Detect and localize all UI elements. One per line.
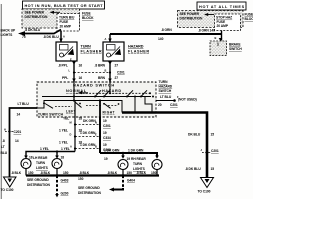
svg-text:SWITCH: SWITCH: [229, 47, 242, 51]
svg-text:C201: C201: [14, 130, 22, 134]
terminal arrow into turn flasher: [59, 39, 63, 42]
svg-text:1 DK GRN: 1 DK GRN: [128, 149, 144, 153]
fuse block (right) dashed box: [178, 11, 244, 28]
svg-text:B: B: [105, 69, 107, 73]
svg-text:YEL: YEL: [63, 117, 69, 121]
arrow to fuse (right): [204, 13, 214, 16]
header box HOT IN RUN: [23, 1, 105, 9]
svg-text:RIGHT: RIGHT: [103, 111, 115, 115]
svg-text:B: B: [95, 145, 97, 149]
label DK BLU 15: [188, 133, 214, 137]
svg-text:LH REAR: LH REAR: [33, 156, 48, 160]
svg-text:HOT IN RUN, BULB TEST OR START: HOT IN RUN, BULB TEST OR START: [25, 4, 104, 8]
off-page triangle TO C100 (left): [4, 177, 17, 187]
svg-text:150: 150: [28, 171, 34, 175]
svg-text:TURN: TURN: [133, 162, 143, 166]
svg-text:TURN B/U: TURN B/U: [59, 15, 75, 19]
label TURN HAZARD SWITCH (right of box): [159, 80, 173, 93]
turn contact blade mid: [75, 102, 82, 108]
label 1 DK GRN 19 (3): [80, 143, 107, 147]
svg-text:27: 27: [115, 76, 119, 80]
svg-text:A: A: [105, 37, 107, 41]
svg-text:FLASHER: FLASHER: [128, 50, 149, 54]
switch internal vertical ppl: [73, 82, 75, 101]
svg-text:150: 150: [63, 171, 69, 175]
svg-text:.8 DK BLU: .8 DK BLU: [25, 28, 41, 32]
svg-text:BLOCK: BLOCK: [82, 16, 94, 20]
svg-text:1 DK GRN: 1 DK GRN: [80, 143, 96, 147]
svg-text:15: 15: [211, 167, 215, 171]
svg-text:E: E: [70, 58, 72, 62]
svg-text:18: 18: [79, 117, 83, 121]
rh lamp ground stubs: [122, 170, 157, 177]
svg-text:BLOCK: BLOCK: [245, 17, 254, 21]
scan edge line: [0, 4, 2, 199]
svg-text:N: N: [95, 121, 97, 125]
svg-text:19: 19: [103, 131, 107, 135]
svg-text:G200: G200: [61, 192, 69, 196]
svg-text:.8 BLK: .8 BLK: [79, 171, 90, 175]
svg-text:TO C100: TO C100: [198, 190, 211, 194]
svg-text:BRN: BRN: [98, 76, 106, 80]
turn movable dashed left: [55, 106, 72, 108]
hazard switch row bus: [42, 96, 151, 98]
turn movable dashed mid: [86, 104, 101, 106]
hazard movable contact dashed: [76, 92, 150, 94]
label PPL 16: [62, 76, 82, 80]
svg-text:LT BLU: LT BLU: [18, 102, 30, 106]
svg-text:16: 16: [79, 76, 83, 80]
label .8 BRN 27: [95, 64, 119, 68]
svg-text:A: A: [63, 35, 65, 39]
internal jog to thick wire: [145, 97, 152, 113]
svg-text:FUSE: FUSE: [245, 13, 254, 17]
svg-text:.8 BLK: .8 BLK: [11, 171, 22, 175]
svg-text:BACK UP: BACK UP: [1, 29, 17, 33]
label HAZARD FLASHER: [128, 45, 149, 54]
fuse block (left) dashed box: [22, 9, 80, 28]
svg-text:SEE POWER: SEE POWER: [25, 11, 45, 15]
brake switch dashed box: [210, 41, 227, 56]
label 1 YEL 18 (2): [59, 129, 82, 133]
turn switch lamp feeds: [75, 101, 100, 118]
connector C201 tick right wire: [202, 151, 211, 154]
terminal arrow into brake switch: [219, 38, 223, 41]
svg-text:19: 19: [104, 157, 108, 161]
svg-text:TURN: TURN: [81, 45, 92, 49]
header box HOT AT ALL TIMES: [197, 2, 246, 10]
svg-text:DISTRIBUTION: DISTRIBUTION: [25, 15, 49, 19]
wire yel from switch: [74, 117, 76, 152]
label .8 BLK 150 (1): [11, 171, 34, 175]
svg-text:BRAKE: BRAKE: [229, 43, 241, 47]
svg-text:16: 16: [79, 64, 83, 68]
svg-text:HOT AT ALL TIMES: HOT AT ALL TIMES: [199, 5, 245, 9]
wire to back up lights: [18, 30, 61, 36]
svg-text:18: 18: [61, 156, 65, 160]
svg-text:C334: C334: [103, 136, 111, 140]
svg-text:HAZARD: HAZARD: [128, 45, 144, 49]
ground drop dashed G404: [109, 176, 123, 192]
svg-text:140: 140: [158, 37, 164, 41]
terminal arrows rh lamps: [121, 156, 159, 159]
label .8 BLK 150 (4): [136, 171, 157, 175]
label back up lights: [1, 29, 17, 38]
contact dot right end: [118, 103, 120, 105]
wire brn hazard flasher to switch: [108, 61, 112, 82]
svg-text:150: 150: [78, 177, 84, 181]
internal vertical to brake feed: [134, 96, 136, 113]
svg-text:DISTRIBUTION: DISTRIBUTION: [27, 183, 51, 187]
svg-text:H: H: [4, 128, 6, 132]
svg-text:FUSE: FUSE: [82, 12, 91, 16]
svg-text:.8 ORN 140: .8 ORN 140: [198, 28, 215, 32]
hazard contact blade 2: [103, 91, 110, 98]
label RH REAR TURN LIGHTS: [131, 157, 146, 171]
arrow to fuse (left): [50, 11, 61, 14]
normal position arrow: [78, 91, 88, 94]
hazard flasher U2: [103, 42, 124, 61]
wire orn from fuse: [110, 31, 222, 43]
lamp RH rear turn light: [152, 160, 162, 170]
svg-text:150: 150: [127, 171, 133, 175]
label .8 BLK 150 (2): [40, 171, 69, 175]
svg-text:G404: G404: [127, 179, 135, 183]
connector C334 dashed: [74, 135, 101, 137]
svg-text:B: B: [215, 36, 217, 40]
svg-text:LT BLU: LT BLU: [160, 95, 172, 99]
off-page triangle TO C100 (right): [201, 178, 214, 188]
label .8 DK BLU 15: [185, 167, 214, 171]
turn contact blade right: [103, 103, 110, 108]
svg-text:DK BLU: DK BLU: [188, 133, 201, 137]
svg-text:HAZARD: HAZARD: [159, 85, 173, 89]
svg-text:20 AMP: 20 AMP: [60, 24, 72, 28]
switch internal vertical brn: [109, 82, 111, 94]
svg-text:.8 DK BLU: .8 DK BLU: [185, 167, 201, 171]
connector C333 dashed: [74, 147, 101, 149]
svg-text:1 DK GRN: 1 DK GRN: [80, 131, 96, 135]
svg-text:1 YEL: 1 YEL: [61, 147, 70, 151]
label .8 PPL 16: [58, 64, 82, 68]
terminal arrow into hazard flasher: [108, 39, 112, 42]
svg-text:D: D: [70, 133, 72, 137]
svg-text:TURN: TURN: [36, 161, 46, 165]
turn flasher U1: [56, 42, 77, 61]
svg-text:LT: LT: [1, 145, 5, 149]
svg-text:(NOT USED): (NOT USED): [178, 98, 197, 102]
wire yel lamp feed horizontal: [26, 150, 75, 157]
svg-text:.8 BRN: .8 BRN: [95, 64, 106, 68]
svg-text:HAZARD SWITCH: HAZARD SWITCH: [73, 84, 114, 88]
lt blu not used stub: [156, 99, 176, 102]
svg-text:14: 14: [17, 113, 21, 117]
svg-text:LEFT: LEFT: [66, 110, 76, 114]
lt blu exit jog: [37, 102, 45, 108]
svg-text:.8 ORN: .8 ORN: [161, 28, 172, 32]
svg-text:M: M: [70, 121, 72, 125]
svg-text:FLASHER: FLASHER: [81, 50, 102, 54]
label SEE GROUND DISTRIBUTION (left): [27, 178, 51, 187]
FUSE BLOCK label (right): [245, 13, 257, 22]
connector C201 dashed (lamps): [74, 123, 101, 125]
turn movable dashed right: [108, 104, 118, 106]
svg-text:20: 20: [158, 103, 162, 107]
svg-text:19: 19: [103, 143, 107, 147]
svg-text:19: 19: [103, 119, 107, 123]
svg-text:BLU: BLU: [1, 151, 8, 155]
fuse TURN B/U 20A dashed sub-box: [57, 14, 80, 32]
label .8 LT BLU stacked: [1, 139, 8, 155]
svg-text:TURN: TURN: [159, 80, 169, 84]
svg-text:1 DK GRN: 1 DK GRN: [104, 149, 120, 153]
svg-text:27: 27: [115, 64, 119, 68]
label TURN FLASHER: [81, 45, 102, 54]
svg-text:DISTRIBUTION: DISTRIBUTION: [180, 16, 204, 20]
label DK GRN 19: [83, 119, 107, 123]
label BRN 27: [98, 76, 118, 80]
turn/hazard switch dashed box: [37, 82, 156, 117]
svg-text:HAZARD: HAZARD: [102, 89, 121, 93]
connector C201 tick left wire: [5, 130, 14, 132]
svg-text:.8: .8: [2, 139, 5, 143]
wire dk grn lamp feed horizontal: [100, 152, 157, 157]
svg-text:75: 75: [22, 35, 26, 39]
wire fuse to junction (dk blu): [60, 31, 62, 42]
svg-text:TO C100: TO C100: [1, 188, 14, 192]
turn contact blade left: [45, 104, 53, 109]
svg-text:PPL: PPL: [62, 76, 68, 80]
svg-text:20 AMP: 20 AMP: [217, 24, 229, 28]
turn switch row bus: [44, 99, 122, 112]
svg-text:E: E: [95, 133, 97, 137]
svg-text:15: 15: [211, 133, 215, 137]
svg-text:.8 BLK: .8 BLK: [136, 171, 147, 175]
label YEL 18: [63, 117, 82, 121]
wire dk grn from switch: [99, 117, 101, 153]
svg-text:.8 BLK: .8 BLK: [40, 171, 51, 175]
svg-text:1 YEL: 1 YEL: [59, 129, 68, 133]
svg-text:LIGHTS: LIGHTS: [1, 33, 14, 37]
svg-text:C201: C201: [211, 149, 219, 153]
svg-text:DISTRIBUTION: DISTRIBUTION: [78, 191, 102, 195]
connector C201 dashed line (flashers): [73, 71, 111, 73]
lamp LH rear turn light: [52, 159, 62, 169]
wire ppl turn flasher to switch: [72, 61, 76, 82]
svg-text:RH REAR: RH REAR: [131, 157, 146, 161]
svg-text:LIGHTS: LIGHTS: [36, 166, 49, 170]
svg-text:14: 14: [15, 139, 19, 143]
see power distribution label (left): [25, 11, 49, 20]
wire lt blu to left: [10, 108, 38, 177]
svg-text:150: 150: [151, 171, 157, 175]
hazard contact blade 3: [126, 90, 133, 97]
hazard contact blade 1: [94, 90, 101, 97]
svg-text:.8 PPL: .8 PPL: [58, 64, 68, 68]
fuse STOP HAZ 20A dashed sub-box: [215, 14, 241, 31]
lamp LH front turn light: [21, 159, 31, 169]
label BRAKE SWITCH: [229, 43, 242, 52]
svg-text:C201: C201: [117, 71, 125, 75]
label SEE GROUND DISTRIBUTION (right): [78, 186, 102, 195]
svg-text:1 YEL: 1 YEL: [40, 147, 49, 151]
label 1 YEL 18 (3): [59, 141, 82, 145]
see power distribution label (right): [180, 12, 204, 20]
svg-text:.8 DK BLU: .8 DK BLU: [43, 35, 59, 39]
terminal arrows lh lamps: [24, 156, 59, 159]
svg-text:C201: C201: [103, 124, 111, 128]
ground bus: [26, 169, 159, 177]
contact dots right: [149, 92, 154, 97]
svg-text:A: A: [70, 145, 72, 149]
label 1 DK GRN 19 (2): [80, 131, 107, 135]
FUSE BLOCK label (left): [82, 12, 94, 21]
svg-text:SEE GROUND: SEE GROUND: [78, 186, 100, 190]
label .8 BLK 150 (3): [107, 171, 132, 175]
svg-text:C201: C201: [170, 103, 178, 107]
hazard contact blade 4: [140, 90, 147, 97]
svg-text:1 YEL: 1 YEL: [59, 141, 68, 145]
svg-text:SWITCH: SWITCH: [159, 89, 172, 93]
thick dk blu wire right: [122, 113, 207, 178]
lamp RH front turn light: [118, 160, 128, 170]
svg-text:.8 BLK: .8 BLK: [107, 171, 118, 175]
ground drop dashed G403/G200: [55, 176, 59, 198]
svg-text:TURN SWITCH: TURN SWITCH: [38, 113, 64, 117]
svg-text:19: 19: [127, 157, 131, 161]
svg-text:G403: G403: [61, 179, 69, 183]
svg-text:SEE GROUND: SEE GROUND: [27, 178, 49, 182]
label LH REAR TURN LIGHTS: [33, 156, 49, 170]
